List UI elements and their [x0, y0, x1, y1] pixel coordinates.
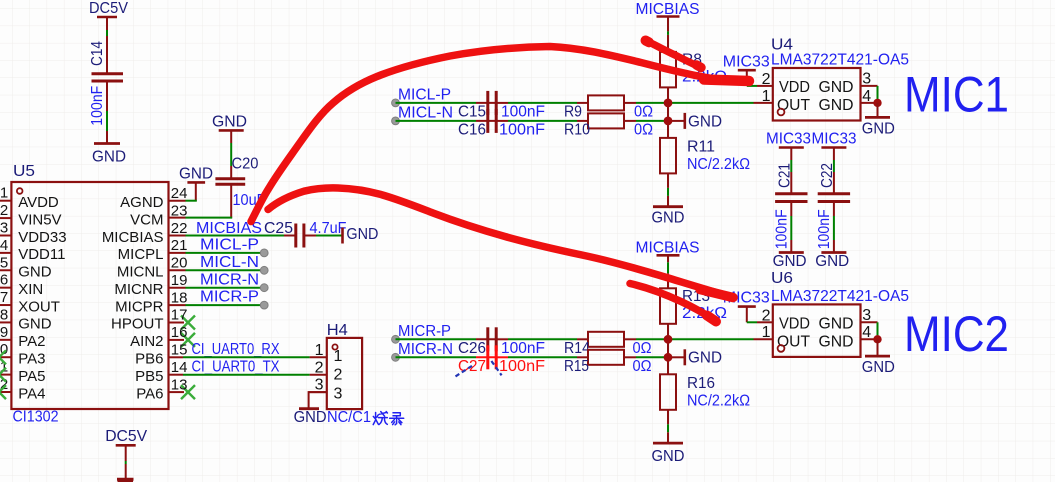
svg-text:PB6: PB6: [135, 351, 163, 368]
ground (below R11): [652, 207, 685, 227]
svg-text:24: 24: [171, 185, 188, 202]
svg-text:GND: GND: [688, 350, 722, 367]
svg-text:5: 5: [0, 254, 8, 271]
svg-text:GND: GND: [652, 448, 685, 465]
svg-text:18: 18: [171, 289, 188, 306]
no-connect cross U5 pin11: [0, 368, 6, 382]
svg-text:CI_UART0_TX: CI_UART0_TX: [192, 358, 280, 375]
svg-text:14: 14: [171, 359, 188, 376]
ground (above C20): [212, 114, 247, 144]
wire node to R11: [667, 121, 669, 138]
IC U5 CI1302: [0, 182, 187, 409]
wire C15 to R9: [496, 102, 588, 104]
svg-text:GND: GND: [819, 315, 854, 332]
ground (at U5 pin 24): [179, 166, 213, 201]
wire junction to ground (U6): [877, 339, 879, 356]
svg-text:MICNL: MICNL: [117, 264, 164, 281]
wire MIC33 to C21: [790, 148, 792, 194]
header H4: [310, 338, 362, 409]
svg-text:VDD11: VDD11: [18, 246, 65, 263]
wire R13 to node: [667, 324, 669, 340]
svg-text:NC/2.2kΩ: NC/2.2kΩ: [687, 392, 750, 409]
svg-text:3: 3: [0, 219, 8, 236]
junction node (R10): [664, 117, 673, 126]
svg-text:MICL-N: MICL-N: [200, 254, 259, 271]
svg-text:LMA3722T421-OA5: LMA3722T421-OA5: [771, 288, 909, 305]
junction node (R14): [664, 335, 673, 344]
value text NC/C1烧录: [327, 409, 371, 426]
no-connect cross U5 pin17: [169, 316, 196, 330]
wire U6 pin3 to pin4: [861, 322, 878, 339]
op-amp U4 value LMA3722T421-OA5: [771, 52, 909, 69]
svg-text:MIC1: MIC1: [904, 67, 1009, 123]
svg-text:GND: GND: [819, 97, 854, 114]
annotation red stroke 1 (arc to MICBIAS pin22): [251, 47, 749, 222]
svg-text:GND: GND: [773, 253, 807, 270]
wire ground to C20: [230, 143, 232, 179]
net label CI_UART0_TX (U5 pin14): [192, 358, 280, 375]
power flag MIC33 (C22): [812, 130, 857, 147]
svg-text:GND: GND: [815, 253, 849, 270]
svg-text:15: 15: [171, 342, 188, 359]
svg-text:R9: R9: [564, 104, 582, 121]
svg-text:GND: GND: [862, 121, 895, 138]
capacitor C21 100nF: [773, 163, 807, 249]
svg-text:GND: GND: [212, 114, 247, 131]
svg-text:C15: C15: [458, 104, 486, 121]
svg-text:H4: H4: [327, 322, 348, 339]
U5 refdes: [13, 163, 35, 180]
wire node to R16: [667, 357, 669, 374]
power flag DC5V (bottom): [105, 428, 147, 445]
svg-text:MICBIAS: MICBIAS: [102, 229, 164, 246]
wire U4 pin4: [861, 102, 878, 104]
svg-text:100nF: 100nF: [501, 340, 545, 357]
svg-text:GND: GND: [18, 264, 52, 281]
op-amp U4 refdes: [771, 37, 793, 54]
op-amp U6 refdes: [771, 270, 793, 287]
ground (below R16): [652, 443, 685, 465]
svg-text:AIN2: AIN2: [130, 333, 163, 350]
svg-text:1: 1: [334, 348, 343, 365]
svg-text:XOUT: XOUT: [18, 298, 60, 315]
wire C25 to ground: [304, 235, 343, 237]
net label MICR-N: [392, 341, 453, 361]
svg-text:2: 2: [762, 71, 771, 88]
svg-text:22: 22: [171, 220, 188, 237]
resistor R10 0 ohm: [564, 113, 653, 138]
op-amp U6 LMA3722T421-OA5: [762, 304, 872, 357]
svg-text:MICR-P: MICR-P: [200, 289, 259, 306]
wire H4 pin3 to ground: [309, 391, 327, 407]
wire U4 pin3 to pin4: [861, 86, 878, 103]
svg-text:C14: C14: [89, 41, 106, 66]
svg-text:4.7uF: 4.7uF: [310, 220, 347, 237]
svg-text:MICR-P: MICR-P: [398, 323, 451, 340]
wire R9 to node: [624, 102, 754, 104]
ground (below C14): [92, 144, 126, 166]
svg-text:VIN5V: VIN5V: [18, 211, 61, 228]
svg-text:0Ω: 0Ω: [633, 358, 652, 375]
wire R16 to ground: [667, 410, 669, 443]
net label MICR-N (U5 pin 19): [169, 271, 269, 291]
ground (below C22): [815, 253, 849, 270]
svg-text:MIC33: MIC33: [766, 130, 811, 147]
wire C26 to R14: [496, 338, 588, 340]
svg-text:GND: GND: [294, 409, 327, 426]
net label MICL-P (U5 pin 21): [169, 237, 269, 257]
resistor R11 NC/2.2k: [660, 138, 750, 174]
header H4 refdes: [327, 322, 348, 339]
wire C14 to GND: [106, 81, 108, 143]
svg-text:0Ω: 0Ω: [633, 340, 652, 357]
svg-text:GND: GND: [862, 359, 895, 376]
svg-text:7: 7: [0, 289, 8, 306]
wire C27 to R15: [496, 356, 588, 358]
wire node to node: [667, 339, 669, 357]
svg-text:PA2: PA2: [18, 333, 45, 350]
svg-text:100nF: 100nF: [89, 86, 106, 126]
net label MICR-P (U5 pin 18): [169, 289, 269, 309]
net label MICL-P: [392, 87, 451, 107]
wire junction to ground (U4): [877, 103, 879, 118]
wire MIC33 to C22: [833, 148, 835, 194]
wire R11 to ground: [667, 173, 669, 206]
annotation Chinese 烧录: [373, 412, 404, 425]
U5 value CI1302: [13, 409, 59, 426]
svg-text:PA5: PA5: [18, 368, 45, 385]
svg-text:16: 16: [171, 324, 188, 341]
capacitor C14 100nF: [89, 41, 123, 126]
resistor R15 0 ohm: [564, 350, 652, 375]
resistor R9 0 ohm: [564, 95, 653, 120]
wire MICR-N to C27: [396, 356, 496, 358]
svg-text:U6: U6: [771, 270, 793, 287]
svg-text:XIN: XIN: [18, 281, 43, 298]
svg-text:100nF: 100nF: [773, 209, 790, 249]
wire C21 to ground: [790, 202, 792, 252]
wire R14 to node: [624, 338, 754, 340]
wire R8 to node: [667, 87, 669, 103]
wire U5 pin15 to H4 pin1: [169, 356, 310, 358]
net label CI_UART0_RX (U5 pin15): [192, 341, 280, 358]
wire DC5V to C14: [106, 17, 108, 74]
svg-text:C26: C26: [458, 340, 486, 357]
net label MICBIAS (R8): [636, 1, 700, 18]
capacitor C26 100nF: [458, 327, 545, 357]
svg-text:C21: C21: [776, 163, 793, 188]
annotation red stroke 3 (arc to MICBIAS mid): [268, 188, 734, 298]
svg-text:GND: GND: [18, 316, 52, 333]
svg-text:2: 2: [315, 359, 324, 376]
svg-text:CI_UART0_RX: CI_UART0_RX: [192, 341, 280, 358]
wire U6 pin4: [861, 338, 878, 340]
svg-text:C22: C22: [819, 163, 836, 188]
svg-text:NC/C1: NC/C1: [327, 409, 371, 426]
wire node to node: [667, 103, 669, 121]
svg-text:20: 20: [171, 255, 188, 272]
svg-text:17: 17: [171, 307, 188, 324]
resistor R13 2.2k: [660, 288, 727, 324]
svg-text:1: 1: [0, 185, 8, 202]
svg-text:VCM: VCM: [130, 211, 163, 228]
resistor R8 2.2k: [660, 51, 727, 87]
ground (H4 pin3): [294, 409, 327, 426]
wire U5 pin24 to ground: [169, 200, 197, 202]
capacitor C22 100nF: [816, 163, 850, 249]
svg-text:R11: R11: [687, 138, 715, 155]
svg-text:0Ω: 0Ω: [634, 122, 653, 139]
svg-text:23: 23: [171, 202, 188, 219]
svg-text:100nF: 100nF: [499, 358, 545, 375]
no-connect cross U5 pin13: [169, 385, 196, 399]
svg-text:3: 3: [334, 385, 343, 402]
svg-text:C16: C16: [458, 122, 486, 139]
svg-text:GND: GND: [652, 209, 685, 226]
svg-text:2: 2: [762, 307, 771, 324]
ground (below C21): [773, 253, 807, 270]
svg-text:MIC2: MIC2: [904, 306, 1009, 362]
svg-text:21: 21: [171, 237, 188, 254]
svg-text:9: 9: [0, 324, 8, 341]
svg-text:DC5V: DC5V: [105, 428, 147, 445]
svg-text:R10: R10: [564, 122, 590, 139]
net label MICBIAS (U5 pin22): [196, 220, 262, 237]
svg-text:MICR-N: MICR-N: [398, 341, 453, 358]
svg-text:MICR-N: MICR-N: [200, 271, 259, 288]
svg-text:CI1302: CI1302: [13, 409, 59, 426]
wire U5 pin22 to C25: [169, 235, 296, 237]
junction (U4 pin4): [873, 99, 881, 107]
capacitor C15 100nF: [458, 91, 545, 121]
op-amp U6 value LMA3722T421-OA5: [771, 288, 909, 305]
svg-text:MICNR: MICNR: [114, 281, 163, 298]
wire C22 to ground: [833, 202, 835, 252]
annotation MIC1: [904, 67, 1009, 123]
wire U5 pin14 to H4 pin2: [169, 374, 310, 376]
annotation red stroke 4 (short, to U6 pin2): [630, 284, 716, 322]
svg-text:GND: GND: [179, 166, 213, 183]
svg-text:PA3: PA3: [18, 351, 45, 368]
svg-text:OUT: OUT: [777, 97, 810, 114]
svg-text:NC/2.2kΩ: NC/2.2kΩ: [687, 156, 750, 173]
svg-text:13: 13: [171, 376, 188, 393]
svg-text:MIC33: MIC33: [723, 53, 770, 70]
annotation dashed cross (C27): [456, 361, 502, 376]
power flag MIC33 (U6): [723, 290, 770, 307]
svg-text:MICPR: MICPR: [115, 298, 164, 315]
annotation MIC2: [904, 306, 1009, 362]
wire node to U6 pin1 OUT: [754, 338, 773, 340]
wire MIC33 to U6 pin2: [747, 307, 773, 323]
svg-text:100nF: 100nF: [501, 104, 545, 121]
svg-text:R14: R14: [564, 340, 590, 357]
wire DC5V down: [125, 445, 127, 479]
svg-text:MICL-P: MICL-P: [200, 237, 259, 254]
ground (U6): [862, 356, 895, 376]
capacitor C25 4.7uF: [264, 220, 347, 248]
resistor R14 0 ohm: [564, 332, 652, 357]
power flag MIC33 (U4): [723, 53, 770, 70]
svg-text:8: 8: [0, 306, 8, 323]
svg-text:MICPL: MICPL: [118, 246, 164, 263]
net label MICR-P: [392, 323, 451, 343]
svg-text:R15: R15: [564, 358, 589, 375]
wire R10 to node: [624, 120, 684, 122]
wire MICL-N to C16: [396, 120, 496, 122]
wire MIC33 to U4 pin2: [747, 70, 773, 86]
svg-text:GND: GND: [819, 79, 854, 96]
svg-text:C25: C25: [264, 220, 293, 237]
U5 pin1 indicator circle: [17, 188, 23, 194]
svg-text:4: 4: [0, 237, 8, 254]
ground (node R15): [685, 349, 722, 366]
no-connect cross U5 pin12: [0, 385, 6, 399]
svg-text:0Ω: 0Ω: [634, 104, 653, 121]
svg-text:PA4: PA4: [18, 385, 45, 402]
svg-text:MICL-P: MICL-P: [398, 87, 451, 104]
svg-text:VDD33: VDD33: [18, 229, 66, 246]
net label MICL-N: [392, 105, 453, 125]
svg-text:VDD: VDD: [779, 79, 810, 96]
capacitor C27 100nF: [458, 345, 545, 375]
svg-text:MIC33: MIC33: [812, 130, 857, 147]
svg-text:GND: GND: [346, 226, 378, 243]
svg-text:R16: R16: [687, 375, 715, 392]
svg-text:AVDD: AVDD: [18, 194, 59, 211]
capacitor (bottom edge, partial): [117, 479, 134, 482]
capacitor C16 100nF: [458, 109, 545, 139]
svg-text:C20: C20: [232, 156, 259, 173]
wire MICR-P to C26: [396, 338, 496, 340]
net label MICBIAS (R13): [636, 240, 700, 257]
svg-text:HPOUT: HPOUT: [111, 316, 164, 333]
wire MICBIAS to R13: [667, 255, 669, 288]
svg-text:100nF: 100nF: [499, 122, 545, 139]
wire C20 to U5 pin23 VCM: [169, 184, 233, 217]
ground (right of C25): [343, 226, 379, 244]
junction (U6 pin4): [873, 335, 881, 343]
svg-text:VDD: VDD: [779, 315, 810, 332]
svg-text:GND: GND: [819, 333, 854, 350]
svg-text:1: 1: [315, 342, 324, 359]
annotation red stroke 2 (short hook near R8): [646, 41, 702, 68]
wire C16 to R10: [496, 120, 588, 122]
ground (node R10): [685, 113, 722, 130]
svg-text:AGND: AGND: [120, 194, 164, 211]
wire R15 to node: [624, 356, 684, 358]
wire MICL-P to C15: [396, 102, 496, 104]
net label MICL-N (U5 pin 20): [169, 254, 269, 274]
svg-text:DC5V: DC5V: [89, 0, 128, 17]
wire node to U4 pin1 OUT: [754, 102, 773, 104]
junction node (R9): [664, 99, 673, 108]
svg-text:GND: GND: [92, 149, 126, 166]
no-connect cross U5 pin16: [169, 333, 196, 347]
junction node (R15): [664, 353, 673, 362]
power flag MIC33 (C21): [766, 130, 811, 147]
svg-text:LMA3722T421-OA5: LMA3722T421-OA5: [771, 52, 909, 69]
svg-text:PA6: PA6: [136, 385, 163, 402]
power flag DC5V (top left): [89, 0, 128, 17]
svg-text:GND: GND: [688, 113, 722, 130]
ground (U4): [862, 117, 895, 137]
svg-text:19: 19: [171, 272, 188, 289]
svg-text:U5: U5: [13, 163, 35, 180]
svg-text:MICL-N: MICL-N: [398, 105, 453, 122]
svg-text:OUT: OUT: [777, 333, 810, 350]
op-amp U4 LMA3722T421-OA5: [762, 68, 872, 121]
resistor R16 NC/2.2k: [660, 374, 750, 410]
svg-text:PB5: PB5: [135, 368, 163, 385]
no-connect cross U5 pin10: [0, 350, 6, 364]
svg-text:6: 6: [0, 272, 8, 289]
capacitor C20 10uF: [215, 156, 265, 210]
svg-text:2: 2: [0, 202, 8, 219]
svg-text:100nF: 100nF: [816, 209, 833, 249]
wire MICBIAS to R8: [667, 17, 669, 52]
svg-text:2: 2: [334, 367, 343, 384]
